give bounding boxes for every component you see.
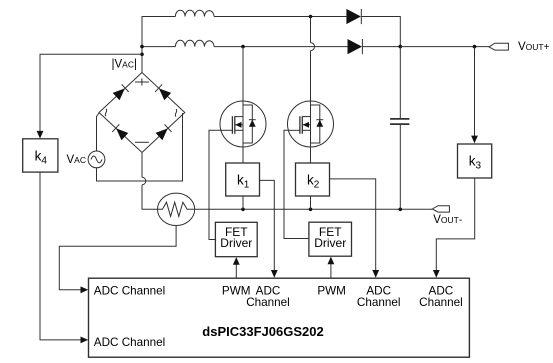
node: k3 tap junction on VOUT+ rail — [473, 45, 477, 49]
node: k2 return junction — [309, 208, 313, 212]
wire: Q2 drain with crossover hop over line 2 — [311, 17, 315, 102]
wire: line 2 from left vertical to inductor L2 — [142, 46, 175, 48]
svg-text:|VAC|: |VAC| — [112, 59, 137, 71]
capacitor C1 bottom lead — [399, 125, 401, 209]
diode D1 — [346, 9, 361, 24]
wire: k2 to VOUT- rail — [310, 196, 312, 209]
label ADC Channel pin (k3) — [419, 284, 463, 309]
arrowhead into k3 — [471, 136, 478, 144]
bridge AC mark right — [175, 109, 177, 116]
block k3 — [458, 144, 492, 178]
wire: PWM 1 from dsPIC to FET driver 1 — [233, 257, 240, 278]
wire: VOUT- sense rail — [195, 208, 433, 210]
wire: Q1 drain — [242, 47, 244, 102]
svg-text:k4: k4 — [35, 148, 48, 166]
wire: sense resistor output to ADC channel 1 — [59, 226, 176, 290]
wire: VAC source to bottom rail to bridge right vertex — [97, 113, 183, 181]
wire: k3 output to ADC channel — [436, 178, 474, 271]
terminal VOUT+ — [489, 43, 508, 50]
bridge diamond outline — [99, 73, 185, 153]
capacitor C1 top lead — [399, 47, 401, 118]
wire: k1 to VOUT- rail — [242, 196, 244, 209]
bridge diode top-right — [155, 84, 171, 100]
block k1 — [226, 163, 260, 196]
label ADC Channel pin (k1) — [246, 284, 290, 309]
arrowhead into ADC (k3 output) — [433, 270, 440, 278]
arrowhead into k4 — [37, 131, 44, 139]
node: junction of line 1 and Q2 drain — [309, 15, 313, 19]
arrowhead into ADC channel 1 — [81, 286, 89, 293]
wire: Q2 source to k2 — [310, 147, 312, 163]
bridge rectifier — [99, 73, 185, 153]
wire: Q1 source to k1 — [242, 147, 244, 163]
svg-text:ADC Channel: ADC Channel — [94, 284, 165, 297]
node: junction of k4 branch at left vertical — [140, 53, 144, 57]
inductor L1 — [175, 10, 214, 16]
bridge diode bottom-left — [112, 124, 128, 140]
svg-text:VOUT+: VOUT+ — [518, 41, 550, 53]
bridge diode top-left — [113, 84, 129, 100]
wire: branch from left vertical to k4 — [40, 54, 142, 132]
svg-text:Channel: Channel — [246, 296, 290, 309]
inductor L2 — [175, 40, 214, 46]
node: boost output junction — [399, 45, 403, 49]
wire: left vertical and AC line 1 to inductor L1 — [142, 17, 175, 73]
node: k1 return junction — [241, 208, 245, 212]
AC source VAC — [88, 151, 105, 168]
wire: bridge negative output with crossover hop over bottom rail — [142, 153, 158, 210]
svg-text:ADC Channel: ADC Channel — [94, 336, 165, 349]
svg-text:k2: k2 — [307, 173, 320, 191]
capacitor C1 — [390, 119, 409, 124]
microcontroller dsPIC33FJ06GS202 box — [89, 278, 470, 357]
wire: k2 output to ADC channel — [330, 179, 380, 278]
wire: bridge left vertex to VAC source — [97, 113, 100, 151]
wire: Q1 gate to FET driver 1 — [209, 130, 220, 239]
wire: line 2 from L2 to diode D2 — [214, 46, 347, 48]
svg-text:Driver: Driver — [314, 236, 346, 250]
svg-text:k3: k3 — [469, 154, 482, 172]
wire: k4 output to ADC channel 2 — [40, 172, 88, 343]
svg-text:dsPIC33FJ06GS202: dsPIC33FJ06GS202 — [202, 324, 323, 339]
wire: Q2 gate to FET driver 2 — [284, 130, 309, 238]
svg-text:Channel: Channel — [357, 296, 401, 309]
bridge minus polarity mark — [135, 141, 149, 143]
block FET driver 2 — [309, 222, 352, 256]
node: junction of line 2 at left vertical — [140, 45, 144, 49]
svg-text:k1: k1 — [237, 173, 250, 191]
bridge diode bottom-right — [155, 124, 171, 140]
block k4 — [23, 139, 58, 172]
bridge plus polarity mark — [135, 78, 149, 85]
bridge AC mark left — [105, 109, 107, 116]
svg-text:VAC: VAC — [67, 154, 86, 166]
block k2 — [296, 163, 330, 196]
svg-text:VOUT-: VOUT- — [433, 214, 462, 226]
wire: D1 cathode to boost output node — [361, 17, 400, 47]
node: junction of line 2 and Q1 drain — [241, 45, 245, 49]
wire: PWM 2 from dsPIC to FET driver 2 — [328, 257, 335, 279]
current sense resistor — [158, 193, 195, 225]
svg-text:PWM: PWM — [317, 284, 346, 297]
svg-text:Channel: Channel — [419, 296, 463, 309]
block FET driver 1 — [215, 222, 257, 256]
wire: VOUT+ rail to k3 — [474, 47, 476, 137]
wire: output node to VOUT+ terminal — [400, 46, 489, 48]
label ADC Channel pin (k2) — [357, 284, 401, 309]
wire: line 1 from L1 to diode D1 — [214, 16, 346, 18]
transistor Q2 — [288, 101, 334, 147]
terminal VOUT- — [432, 206, 449, 212]
node: capacitor return junction — [399, 208, 403, 212]
svg-text:Driver: Driver — [220, 236, 252, 250]
wire: D2 cathode to boost output node — [362, 46, 400, 48]
wire: k1 output to ADC channel — [260, 180, 278, 277]
transistor Q1 — [220, 101, 266, 147]
diode D2 — [348, 39, 363, 54]
